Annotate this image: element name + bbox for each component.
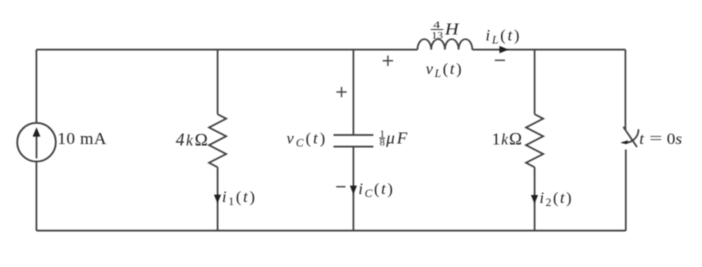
svg-text:iC(t): iC(t) [358, 179, 394, 200]
svg-text:i1(t): i1(t) [222, 187, 257, 208]
svg-text:i2(t): i2(t) [540, 188, 574, 209]
svg-text:0s: 0s [667, 129, 682, 148]
svg-text:8: 8 [380, 139, 386, 149]
svg-text:10 mA: 10 mA [57, 129, 106, 148]
svg-text:t: t [639, 129, 644, 148]
svg-text:vC(t): vC(t) [287, 129, 328, 150]
svg-text:H: H [444, 20, 460, 39]
svg-text:4kΩ: 4kΩ [176, 130, 210, 150]
svg-text:13: 13 [432, 32, 444, 42]
svg-text:vL(t): vL(t) [426, 59, 464, 80]
svg-text:1kΩ: 1kΩ [492, 129, 523, 148]
svg-text:=: = [649, 129, 662, 148]
svg-text:μF: μF [385, 128, 409, 147]
svg-text:iL(t): iL(t) [486, 25, 522, 46]
